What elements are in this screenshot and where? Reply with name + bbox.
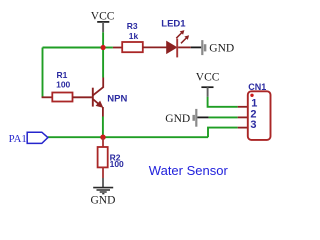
svg-text:GND: GND (91, 195, 116, 207)
svg-text:GND: GND (209, 43, 234, 55)
resistor R3 lead right (143, 46, 167, 48)
wire VCC to CN1 pin1 (208, 97, 238, 107)
power symbol VCC (right) (196, 72, 220, 97)
power symbol VCC (top) (91, 10, 115, 32)
wire PA1 net (48, 136, 208, 138)
svg-text:CN1: CN1 (248, 82, 266, 92)
svg-text:NPN: NPN (107, 93, 127, 104)
wire collector to node A (102, 50, 104, 78)
svg-text:VCC: VCC (91, 10, 115, 22)
connector CN1 body (248, 91, 271, 140)
resistor R2 lead top (102, 138, 104, 147)
connector CN1 pin 2 stub (238, 116, 248, 118)
svg-text:VCC: VCC (196, 72, 220, 84)
resistor R3 lead left (113, 47, 122, 49)
connector CN1 pin 3 stub (238, 127, 248, 129)
svg-text:3: 3 (250, 119, 256, 131)
connector CN1 pin1 mark (250, 94, 253, 97)
resistor R1 (52, 93, 72, 102)
wire node A left (43, 47, 104, 49)
LED cathode bar (176, 39, 178, 58)
ground GND (top right) (202, 40, 234, 55)
resistor R3 (122, 42, 143, 52)
LED D1 triangle (167, 41, 177, 54)
node A junction (101, 45, 106, 50)
transistor Q1 base bar (92, 88, 94, 107)
port PA1 (9, 132, 48, 145)
resistor R1 lead right (73, 96, 92, 98)
svg-text:R1: R1 (57, 70, 68, 80)
svg-text:GND: GND (165, 113, 190, 125)
ground GND (middle right) (165, 109, 196, 127)
svg-text:R3: R3 (127, 21, 138, 31)
wire VCC to node A (102, 32, 104, 47)
transistor Q1 emitter with arrow (93, 99, 104, 117)
wire R2 to ground (102, 178, 104, 187)
svg-text:1k: 1k (129, 31, 139, 41)
svg-text:PA1: PA1 (9, 133, 27, 145)
resistor R2 lead bottom (102, 167, 104, 178)
svg-text:LED1: LED1 (161, 18, 186, 29)
connector CN1 pin 1 stub (238, 106, 248, 108)
LED arrow 2 (181, 35, 189, 43)
wire GND to CN1 pin2 (197, 116, 208, 118)
wire emitter to node B (102, 117, 104, 138)
node B junction (100, 135, 105, 140)
resistor R1 lead left (42, 96, 53, 98)
svg-text:100: 100 (110, 159, 124, 169)
ground GND (bottom) (91, 188, 116, 207)
LED arrow 1 (176, 30, 184, 38)
wire PA1 net to CN1 pin3 (208, 128, 238, 138)
svg-text:Water Sensor: Water Sensor (149, 163, 229, 178)
transistor Q1 collector (93, 87, 103, 95)
wire node A to R3 (103, 47, 113, 49)
LED cathode lead (178, 46, 191, 48)
resistor R2 (98, 147, 108, 167)
wire LED to GND (191, 46, 202, 48)
wire left vertical to R1 (42, 48, 44, 98)
svg-text:100: 100 (56, 80, 70, 90)
